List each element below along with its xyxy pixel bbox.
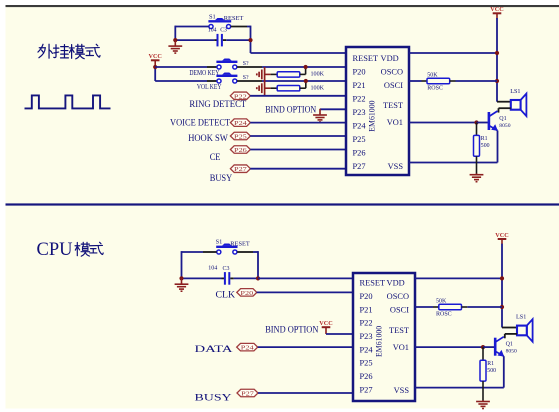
switch S1 label (top) <box>209 14 216 21</box>
lead DEMO KEY right <box>237 66 262 68</box>
stem VCC to BIND wire <box>325 332 327 334</box>
svg-text:VCC: VCC <box>148 53 161 60</box>
svg-text:TEST: TEST <box>383 101 403 110</box>
capacitor C3 designator (bottom) <box>223 266 230 272</box>
transistor Q1 value 8050 (bottom) <box>506 349 517 355</box>
wire RESET row to IC (bottom) <box>258 277 353 279</box>
lead R1 bottom to ground (top) <box>476 156 478 174</box>
wire S1 left to vertical (top) <box>175 26 209 28</box>
resistor R1 designator (top) <box>481 136 488 142</box>
wire OSCI to ROSC (bottom) <box>415 306 433 308</box>
wire cap row right (bottom) <box>234 277 258 279</box>
speaker LS1 (top) <box>511 94 527 117</box>
switch S1 label (bottom) <box>216 239 223 246</box>
lead ground to resistor #2 <box>265 87 271 89</box>
wire VSS row (bottom) <box>415 387 504 389</box>
svg-text:VCC: VCC <box>490 6 503 13</box>
node P20 net label <box>237 289 257 297</box>
pin name OSCO (op IC U? EM61000 (top)) <box>381 68 403 77</box>
wire S1 right corner (bottom) <box>253 251 258 253</box>
stem to ground (bottom S1) <box>181 278 183 283</box>
wire left vertical (bottom) <box>181 251 183 278</box>
lead speaker bottom (bottom) <box>505 333 517 335</box>
wire to DEMO KEY <box>155 66 207 68</box>
wire VDD to VCC vertical (top) <box>409 52 497 54</box>
wire to VOL KEY <box>155 80 207 82</box>
wire speaker to collector (bottom) <box>504 334 506 338</box>
resistor 100K #2 <box>277 86 300 91</box>
lead S1 left (bottom) <box>203 251 217 253</box>
pin name TEST (op IC U? EM61000 (top)) <box>383 101 403 110</box>
wire right vertical to RESET row (top) <box>250 26 252 53</box>
wire ROSC to VCC vertical (bottom) <box>467 306 502 308</box>
transistor Q1 8050 (top) <box>489 111 498 131</box>
node P24 net label <box>237 343 258 351</box>
pin name P21 (op IC U? EM61000 (bottom)) <box>360 305 373 314</box>
pin name VDD (op IC U? EM61000 (top)) <box>381 54 399 63</box>
svg-text:104: 104 <box>208 27 217 33</box>
resistor R1 designator (bottom) <box>487 361 494 367</box>
lead resistor #1 up <box>305 67 307 74</box>
wire CLK row to IC P20 (bottom) <box>257 291 353 293</box>
resistor ROSC 50K (bottom) <box>439 304 462 309</box>
svg-text:P24: P24 <box>353 122 367 131</box>
pin name TEST (op IC U? EM61000 (bottom)) <box>389 326 409 335</box>
svg-text:VCC: VCC <box>319 320 332 327</box>
pin name P25 (op IC U? EM61000 (top)) <box>353 135 366 144</box>
lead R1 top (bottom) <box>482 347 484 360</box>
speaker LS1 label (bottom) <box>516 314 526 321</box>
wire BIND OPTION to IC (bottom) <box>326 333 353 335</box>
stem BIND ground (top) <box>319 109 321 114</box>
switch S? DEMO KEY <box>216 59 237 70</box>
svg-text:LS1: LS1 <box>516 314 526 321</box>
pin name P21 (op IC U? EM61000 (top)) <box>353 81 366 90</box>
speaker LS1 (bottom) <box>517 319 533 342</box>
capacitor C3 (top) <box>218 34 222 47</box>
wire cap row right (top) <box>226 39 250 41</box>
junction left vertical/ground (bottom) <box>179 276 183 280</box>
capacitor C3 designator (top) <box>220 28 227 34</box>
switch S1 push-button (top) <box>208 18 231 29</box>
pin name P24 (op IC U? EM61000 (bottom)) <box>360 345 374 354</box>
pin name P22 (op IC U? EM61000 (bottom)) <box>360 319 373 328</box>
lead R1 top (top) <box>476 123 478 136</box>
lead ROSC left (bottom) <box>433 306 439 308</box>
svg-text:Q1: Q1 <box>499 116 506 122</box>
lead C3 left (bottom) <box>222 277 225 279</box>
lead S1 right (bottom) <box>237 251 253 253</box>
lead resistor #2 right <box>300 87 306 89</box>
svg-text:ROSC: ROSC <box>427 86 443 92</box>
switch S1 RESET label (top) <box>224 15 244 22</box>
svg-text:P20: P20 <box>353 68 366 77</box>
ground below BIND OPTION (top) <box>313 114 327 122</box>
svg-text:P24: P24 <box>234 120 248 127</box>
svg-text:P21: P21 <box>353 81 366 90</box>
transistor Q1 designator (top) <box>499 116 506 122</box>
pin name VDD (op IC U? EM61000 (bottom)) <box>387 279 405 288</box>
title char 模 (bottom) <box>75 242 89 256</box>
svg-text:100K: 100K <box>311 72 325 78</box>
svg-text:P20: P20 <box>360 292 373 301</box>
BUSY net name (top) <box>210 173 233 184</box>
title char 模 <box>69 44 84 58</box>
svg-text:BIND OPTION: BIND OPTION <box>265 104 316 115</box>
VCC power port (bottom right) <box>495 232 508 244</box>
svg-text:BUSY: BUSY <box>195 392 232 403</box>
junction right vertical/RESET row (bottom) <box>256 276 260 280</box>
pin name P27 (op IC U? EM61000 (top)) <box>353 162 366 171</box>
wire ROSC to VCC vertical (top) <box>456 80 498 82</box>
capacitor C3 value 104 (top) <box>208 27 217 33</box>
wire OSCI to ROSC (top) <box>409 80 422 82</box>
svg-text:R1: R1 <box>481 136 488 142</box>
svg-text:P26: P26 <box>353 149 366 158</box>
wire DATA row to IC P24 (bottom) <box>258 346 353 348</box>
lead ROSC right (top) <box>450 80 456 82</box>
svg-text:8050: 8050 <box>506 349 517 355</box>
DEMO KEY label <box>189 69 219 77</box>
lead ROSC left (top) <box>422 80 428 82</box>
pin name P24 (op IC U? EM61000 (top)) <box>353 122 367 131</box>
switch S? label (VOL) <box>243 75 249 81</box>
CLK net name <box>216 289 236 300</box>
svg-text:P21: P21 <box>360 305 373 314</box>
node P25 net label <box>230 132 250 140</box>
svg-text:OSCO: OSCO <box>387 292 409 301</box>
junction resistor #1 / P20 wire <box>304 65 308 69</box>
svg-text:8050: 8050 <box>499 123 510 129</box>
transistor Q1 8050 (bottom) <box>495 337 504 357</box>
pin name P26 (op IC U? EM61000 (top)) <box>353 149 366 158</box>
svg-text:P25: P25 <box>234 134 248 141</box>
IC part number EM61000 (op IC U? EM61000 (bottom)) <box>375 326 384 357</box>
svg-text:HOOK SW: HOOK SW <box>188 133 228 144</box>
resistor ROSC value 50K (top) <box>427 73 438 79</box>
wire P24 row to IC <box>250 122 346 124</box>
pin name OSCI (op IC U? EM61000 (top)) <box>384 81 403 90</box>
junction at right vertical / cap row (top) <box>248 38 252 42</box>
wire left vertical to cap row (top) <box>174 26 176 40</box>
svg-text:P22: P22 <box>360 319 373 328</box>
node P22 net label <box>230 92 250 100</box>
transistor Q1 value 8050 (top) <box>499 123 510 129</box>
lead speaker bottom (top) <box>499 107 511 109</box>
resistor R1 500 (top) <box>474 135 480 156</box>
resistor 100K #1 <box>277 72 300 77</box>
lead resistor #2 up <box>305 81 307 88</box>
svg-text:P26: P26 <box>234 147 248 154</box>
op IC U? EM61000 (top) <box>346 47 409 175</box>
CE net name <box>210 152 221 163</box>
resistor 100K #2 value <box>311 85 325 91</box>
resistor R1 value 500 (top) <box>481 143 490 149</box>
pin name RESET (op IC U? EM61000 (bottom)) <box>360 279 386 288</box>
svg-text:500: 500 <box>487 368 496 374</box>
ground (rotated) for R 100K #1 <box>257 67 265 82</box>
wire S1 right corner (top) <box>247 26 251 28</box>
wire BIND OPTION to IC TEST (top) <box>320 108 346 110</box>
ground below S1 (bottom) <box>175 283 189 291</box>
pin name RESET (op IC U? EM61000 (top)) <box>353 54 379 63</box>
svg-text:Q1: Q1 <box>506 342 513 348</box>
wire P22 row to IC <box>250 95 346 97</box>
title char 外 <box>38 44 52 58</box>
pin name VO1 (op IC U? EM61000 (top)) <box>387 118 403 127</box>
ground below R1 (bottom) <box>476 400 490 408</box>
lead resistor #2 left <box>271 87 278 89</box>
svg-text:EM61000: EM61000 <box>368 100 377 131</box>
svg-text:OSCO: OSCO <box>381 68 403 77</box>
pin name P22 (op IC U? EM61000 (top)) <box>353 95 366 104</box>
pin name P23 (op IC U? EM61000 (top)) <box>353 108 366 117</box>
lead speaker top (bottom) <box>502 327 517 329</box>
svg-text:P22: P22 <box>353 95 366 104</box>
resistor ROSC value 50K (bottom) <box>436 299 447 305</box>
HOOK SW net name <box>188 133 228 144</box>
wire VO1 to base (bottom) <box>415 346 483 348</box>
svg-text:DATA: DATA <box>195 344 233 355</box>
pin name VO1 (op IC U? EM61000 (bottom)) <box>393 343 409 352</box>
svg-text:P24: P24 <box>241 345 255 352</box>
svg-text:VDD: VDD <box>381 54 399 63</box>
title char 式 <box>85 44 100 57</box>
pin name P23 (op IC U? EM61000 (bottom)) <box>360 332 373 341</box>
resistor ROSC 50K (top) <box>427 78 450 83</box>
op IC U? EM61000 (bottom) <box>353 273 415 401</box>
svg-text:P27: P27 <box>241 391 255 398</box>
junction VDD/VCC (bottom) <box>500 276 504 280</box>
svg-text:CPU: CPU <box>37 240 73 260</box>
wire to Q1 base (top) <box>477 122 488 124</box>
node P27 net label <box>230 165 250 173</box>
wire VSS row (top) <box>409 162 498 164</box>
junction at left vertical / cap row (top) <box>173 38 177 42</box>
svg-text:P23: P23 <box>353 108 366 117</box>
junction VO1/R1 (bottom) <box>481 345 485 349</box>
svg-text:S1: S1 <box>209 14 216 21</box>
svg-text:100K: 100K <box>311 85 325 91</box>
lead ROSC right (bottom) <box>462 306 468 308</box>
switch S1 push-button (bottom) <box>216 244 237 255</box>
resistor ROSC name (top) <box>427 86 443 92</box>
svg-text:ROSC: ROSC <box>436 312 452 318</box>
svg-text:VCC: VCC <box>495 232 508 239</box>
junction VDD/VCC (top) <box>495 51 499 55</box>
lead speaker top (top) <box>497 101 511 103</box>
pin name VSS (op IC U? EM61000 (top)) <box>388 162 404 171</box>
wire speaker to collector (top) <box>498 108 500 112</box>
node P26 net label <box>230 146 250 154</box>
junction VO1/R1 (top) <box>474 120 478 124</box>
svg-text:CE: CE <box>210 152 221 163</box>
svg-text:VSS: VSS <box>394 386 410 395</box>
wire emitter to VSS (bottom) <box>503 356 505 387</box>
svg-text:RESET: RESET <box>353 54 379 63</box>
svg-text:BUSY: BUSY <box>210 173 233 184</box>
svg-text:C3: C3 <box>223 266 230 272</box>
title char 式 (bottom) <box>89 242 103 254</box>
wire P27 row to IC <box>250 168 346 170</box>
VOL KEY label <box>197 83 222 91</box>
switch S? label (DEMO) <box>243 61 249 67</box>
svg-text:S1: S1 <box>216 239 223 246</box>
svg-text:50K: 50K <box>427 73 438 79</box>
svg-text:C3: C3 <box>220 28 227 34</box>
lead C3 right (bottom) <box>230 277 233 279</box>
svg-text:P25: P25 <box>360 359 373 368</box>
svg-text:104: 104 <box>208 265 217 271</box>
svg-text:VOICE DETECT: VOICE DETECT <box>170 118 230 129</box>
lead C3 left <box>214 39 216 41</box>
BUSY net name (bottom) <box>195 392 232 403</box>
wire cap row left (bottom) <box>182 277 222 279</box>
svg-text:P27: P27 <box>234 166 248 173</box>
svg-text:P24: P24 <box>360 345 374 354</box>
wire DEMO row to IC P20 <box>262 66 346 68</box>
svg-text:LS1: LS1 <box>510 88 520 95</box>
resistor R1 500 (bottom) <box>480 360 486 381</box>
VOICE DETECT net name <box>170 118 230 129</box>
wire VOL row to IC P21 <box>262 80 346 82</box>
wire right vertical (bottom) <box>257 251 259 278</box>
lead VOL KEY left <box>207 80 217 82</box>
svg-text:OSCI: OSCI <box>390 305 409 314</box>
junction VCC/DEMO row <box>153 65 157 69</box>
svg-text:P27: P27 <box>353 162 366 171</box>
switch S1 RESET label (bottom) <box>230 240 250 247</box>
svg-text:R1: R1 <box>487 361 494 367</box>
wire P25 row to IC <box>250 135 346 137</box>
svg-text:VO1: VO1 <box>393 343 409 352</box>
wire VCC vertical (bottom right) <box>501 244 503 328</box>
svg-text:CLK: CLK <box>216 289 236 300</box>
wire VCC vertical (top left) <box>154 66 156 82</box>
pin name OSCI (op IC U? EM61000 (bottom)) <box>390 305 409 314</box>
lead R1 bottom to ground (bottom) <box>482 381 484 401</box>
speaker LS1 label (top) <box>510 88 520 95</box>
lead C3 right <box>223 39 226 41</box>
node P27 net label <box>237 389 258 397</box>
section divider line <box>6 203 559 205</box>
pin name P27 (op IC U? EM61000 (bottom)) <box>360 385 373 394</box>
wire RESET row to IC (top) <box>251 52 347 54</box>
square wave symbol <box>25 95 111 108</box>
svg-text:VO1: VO1 <box>387 118 403 127</box>
pin name P20 (op IC U? EM61000 (top)) <box>353 68 366 77</box>
svg-text:P25: P25 <box>353 135 366 144</box>
capacitor C3 value 104 (bottom) <box>208 265 217 271</box>
wire VDD to VCC vertical (bottom) <box>415 277 502 279</box>
lead VOL KEY right <box>237 80 262 82</box>
svg-text:OSCI: OSCI <box>384 81 403 90</box>
wire S1 left (bottom) <box>182 251 204 253</box>
lead resistor #1 left <box>271 73 278 75</box>
lead S1 right (top) <box>231 26 247 28</box>
svg-text:DEMO KEY: DEMO KEY <box>189 69 219 77</box>
lead ground to resistor #1 <box>265 73 271 75</box>
pin name VSS (op IC U? EM61000 (bottom)) <box>394 386 410 395</box>
wire stem to ground (top S1) <box>174 40 176 45</box>
VCC power port (BIND, bottom) <box>319 320 332 332</box>
capacitor C3 (bottom) <box>225 272 229 285</box>
svg-text:RING DETECT: RING DETECT <box>189 99 246 110</box>
wire emitter to VSS (top) <box>497 131 499 163</box>
wire VO1 to base (top) <box>409 122 477 124</box>
svg-text:VSS: VSS <box>388 162 404 171</box>
title char 挂 <box>54 45 69 58</box>
pin name P26 (op IC U? EM61000 (bottom)) <box>360 372 373 381</box>
junction resistor #2 / P21 wire <box>304 79 308 83</box>
lead resistor #1 right <box>300 73 306 75</box>
resistor ROSC name (bottom) <box>436 312 452 318</box>
BIND OPTION net name (top) <box>265 104 316 115</box>
RING DETECT net name <box>189 99 246 110</box>
svg-text:P27: P27 <box>360 385 373 394</box>
wire BUSY row to IC P27 (bottom) <box>258 392 353 394</box>
svg-text:P23: P23 <box>360 332 373 341</box>
svg-text:500: 500 <box>481 143 490 149</box>
junction OSC/VCC (top) <box>495 79 499 83</box>
pin name P25 (op IC U? EM61000 (bottom)) <box>360 359 373 368</box>
svg-text:TEST: TEST <box>389 326 409 335</box>
switch S? VOL KEY <box>216 73 237 84</box>
node P24 net label <box>230 119 250 127</box>
IC part number EM61000 (op IC U? EM61000 (top)) <box>368 100 377 131</box>
title CPU text <box>37 240 73 260</box>
transistor Q1 designator (bottom) <box>506 342 513 348</box>
svg-text:EM61000: EM61000 <box>375 326 384 357</box>
sheet top border <box>6 5 559 7</box>
ground (rotated) for R 100K #2 <box>257 81 265 96</box>
svg-text:BIND OPTION: BIND OPTION <box>265 325 318 336</box>
svg-text:P26: P26 <box>360 372 373 381</box>
junction OSC/VCC (bottom) <box>500 305 504 309</box>
svg-text:50K: 50K <box>436 299 447 305</box>
svg-text:VDD: VDD <box>387 279 405 288</box>
ground below R1 (top) <box>470 173 484 181</box>
svg-text:VOL KEY: VOL KEY <box>197 83 222 91</box>
VCC power port (top left) <box>148 53 161 65</box>
wire to Q1 base (bottom) <box>483 346 494 348</box>
wire P26 row to IC <box>250 149 346 151</box>
wire cap row left (top) <box>175 39 214 41</box>
resistor R1 value 500 (bottom) <box>487 368 496 374</box>
VCC power port (top right) <box>490 6 503 18</box>
wire VCC vertical (top right) <box>496 18 498 102</box>
svg-text:RESET: RESET <box>360 279 386 288</box>
svg-text:P20: P20 <box>240 290 254 297</box>
resistor 100K #1 value <box>311 72 325 78</box>
pin name P20 (op IC U? EM61000 (bottom)) <box>360 292 373 301</box>
DATA net name <box>195 344 233 355</box>
BIND OPTION net name (bottom) <box>265 325 318 336</box>
lead DEMO KEY left <box>207 66 217 68</box>
pin name OSCO (op IC U? EM61000 (bottom)) <box>387 292 409 301</box>
ground below S1 (top) <box>168 45 182 53</box>
